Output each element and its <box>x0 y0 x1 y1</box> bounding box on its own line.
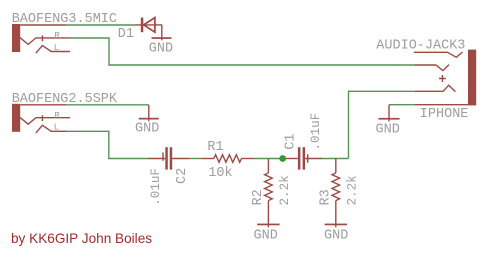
connector J1 L contact arm <box>36 46 70 54</box>
connector J1 body <box>12 24 20 52</box>
capacitor C2 <box>149 147 190 169</box>
svg-text:2.2k: 2.2k <box>278 175 292 205</box>
ground bar (R3) <box>325 224 347 226</box>
resistor R1 <box>201 155 253 163</box>
wire jack bottom to GND <box>389 104 415 106</box>
svg-text:IPHONE: IPHONE <box>420 107 469 122</box>
svg-text:C1: C1 <box>284 134 299 150</box>
wire C1 to green corner <box>322 158 349 160</box>
svg-text:.01uF: .01uF <box>149 168 163 206</box>
svg-text:R: R <box>54 30 60 41</box>
svg-text:10k: 10k <box>208 166 232 181</box>
connector J3 ring contact <box>414 65 449 71</box>
svg-text:D1: D1 <box>118 27 134 42</box>
svg-text:R3: R3 <box>319 189 334 205</box>
svg-text:GND: GND <box>254 228 278 243</box>
svg-text:GND: GND <box>135 122 159 137</box>
svg-text:.01uF: .01uF <box>309 113 323 151</box>
wire R1 to junction <box>254 158 283 160</box>
connector J2 R contact arm <box>20 117 71 124</box>
svg-text:AUDIO-JACK3: AUDIO-JACK3 <box>376 39 465 54</box>
ground bar (R2) <box>257 224 279 226</box>
svg-text:L: L <box>54 122 60 133</box>
resistor R2 <box>265 159 273 228</box>
wire SPK sleeve to GND <box>66 104 149 106</box>
svg-text:by KK6GIP John Boiles: by KK6GIP John Boiles <box>11 231 152 246</box>
ground lead (SPK) <box>148 105 150 121</box>
svg-text:C2: C2 <box>175 168 190 184</box>
svg-text:GND: GND <box>324 228 348 243</box>
resistor R3 <box>332 159 340 228</box>
connector J3 tip contact <box>415 85 455 91</box>
connector J2 L contact arm <box>36 125 66 133</box>
connector J1 sleeve pin <box>20 24 66 26</box>
svg-text:GND: GND <box>376 122 400 137</box>
plus marker (J3) <box>439 75 446 82</box>
ground lead (J3) <box>388 105 390 122</box>
connector J2 sleeve pin <box>20 104 66 106</box>
junction node <box>279 155 286 162</box>
svg-text:R1: R1 <box>207 140 223 155</box>
wire SPK L to C2 <box>66 131 149 158</box>
ground bar for D1 <box>152 37 172 39</box>
connector J1 R contact arm <box>20 37 71 44</box>
ground bar (J3) <box>378 118 399 120</box>
svg-text:GND: GND <box>149 42 173 57</box>
ground bar (SPK) <box>139 118 159 120</box>
connector J3 sleeve contact <box>414 52 463 57</box>
svg-text:R: R <box>54 110 60 121</box>
wire MIC R to audio jack ring <box>70 38 415 65</box>
connector J2 R contact tick <box>41 115 43 121</box>
svg-text:2.2k: 2.2k <box>345 175 359 205</box>
connector J2 body <box>12 104 20 132</box>
connector J1 R contact tick <box>41 35 43 41</box>
wire MIC sleeve to D1 <box>66 24 136 26</box>
svg-text:R2: R2 <box>251 189 266 205</box>
wire junction to audio jack tip <box>349 91 416 158</box>
svg-text:L: L <box>54 42 60 53</box>
connector J3 bottom pin <box>415 104 468 106</box>
diode D1 <box>136 18 163 41</box>
connector J3 body <box>468 50 476 106</box>
wire C2 to R1 <box>189 158 201 160</box>
capacitor C1 <box>286 147 322 169</box>
